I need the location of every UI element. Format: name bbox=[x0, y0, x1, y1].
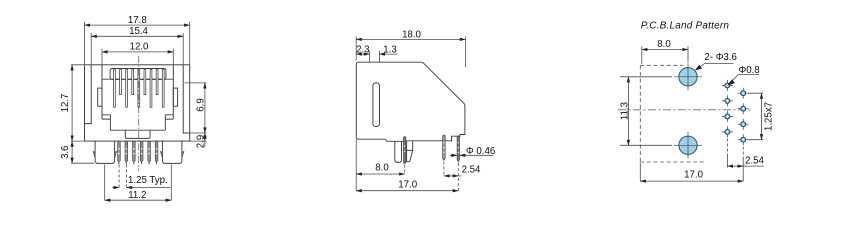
svg-text:2.3: 2.3 bbox=[356, 44, 369, 55]
svg-text:2.9: 2.9 bbox=[195, 135, 206, 148]
svg-text:12.7: 12.7 bbox=[60, 94, 71, 113]
svg-text:15.4: 15.4 bbox=[129, 26, 148, 37]
svg-text:Φ0.8: Φ0.8 bbox=[739, 65, 760, 76]
svg-text:P.C.B.Land Pattern: P.C.B.Land Pattern bbox=[641, 21, 730, 32]
svg-text:12.0: 12.0 bbox=[130, 42, 149, 53]
svg-text:2- Φ3.6: 2- Φ3.6 bbox=[704, 52, 737, 63]
svg-text:Φ 0.46: Φ 0.46 bbox=[466, 146, 495, 157]
svg-text:17.0: 17.0 bbox=[398, 179, 417, 190]
svg-text:2.54: 2.54 bbox=[745, 155, 764, 166]
svg-text:18.0: 18.0 bbox=[402, 29, 421, 40]
svg-text:2.54: 2.54 bbox=[462, 164, 481, 175]
svg-text:11.3: 11.3 bbox=[619, 102, 630, 120]
svg-text:3.6: 3.6 bbox=[60, 146, 71, 159]
svg-text:1.25x7: 1.25x7 bbox=[764, 102, 775, 131]
svg-text:8.0: 8.0 bbox=[657, 39, 671, 50]
svg-text:17.0: 17.0 bbox=[684, 169, 703, 180]
svg-text:11.2: 11.2 bbox=[128, 190, 146, 201]
svg-text:17.8: 17.8 bbox=[128, 15, 147, 26]
svg-text:6.9: 6.9 bbox=[195, 98, 206, 111]
svg-text:1.3: 1.3 bbox=[383, 44, 396, 55]
svg-text:1.25 Typ.: 1.25 Typ. bbox=[128, 175, 168, 186]
svg-text:8.0: 8.0 bbox=[375, 162, 389, 173]
